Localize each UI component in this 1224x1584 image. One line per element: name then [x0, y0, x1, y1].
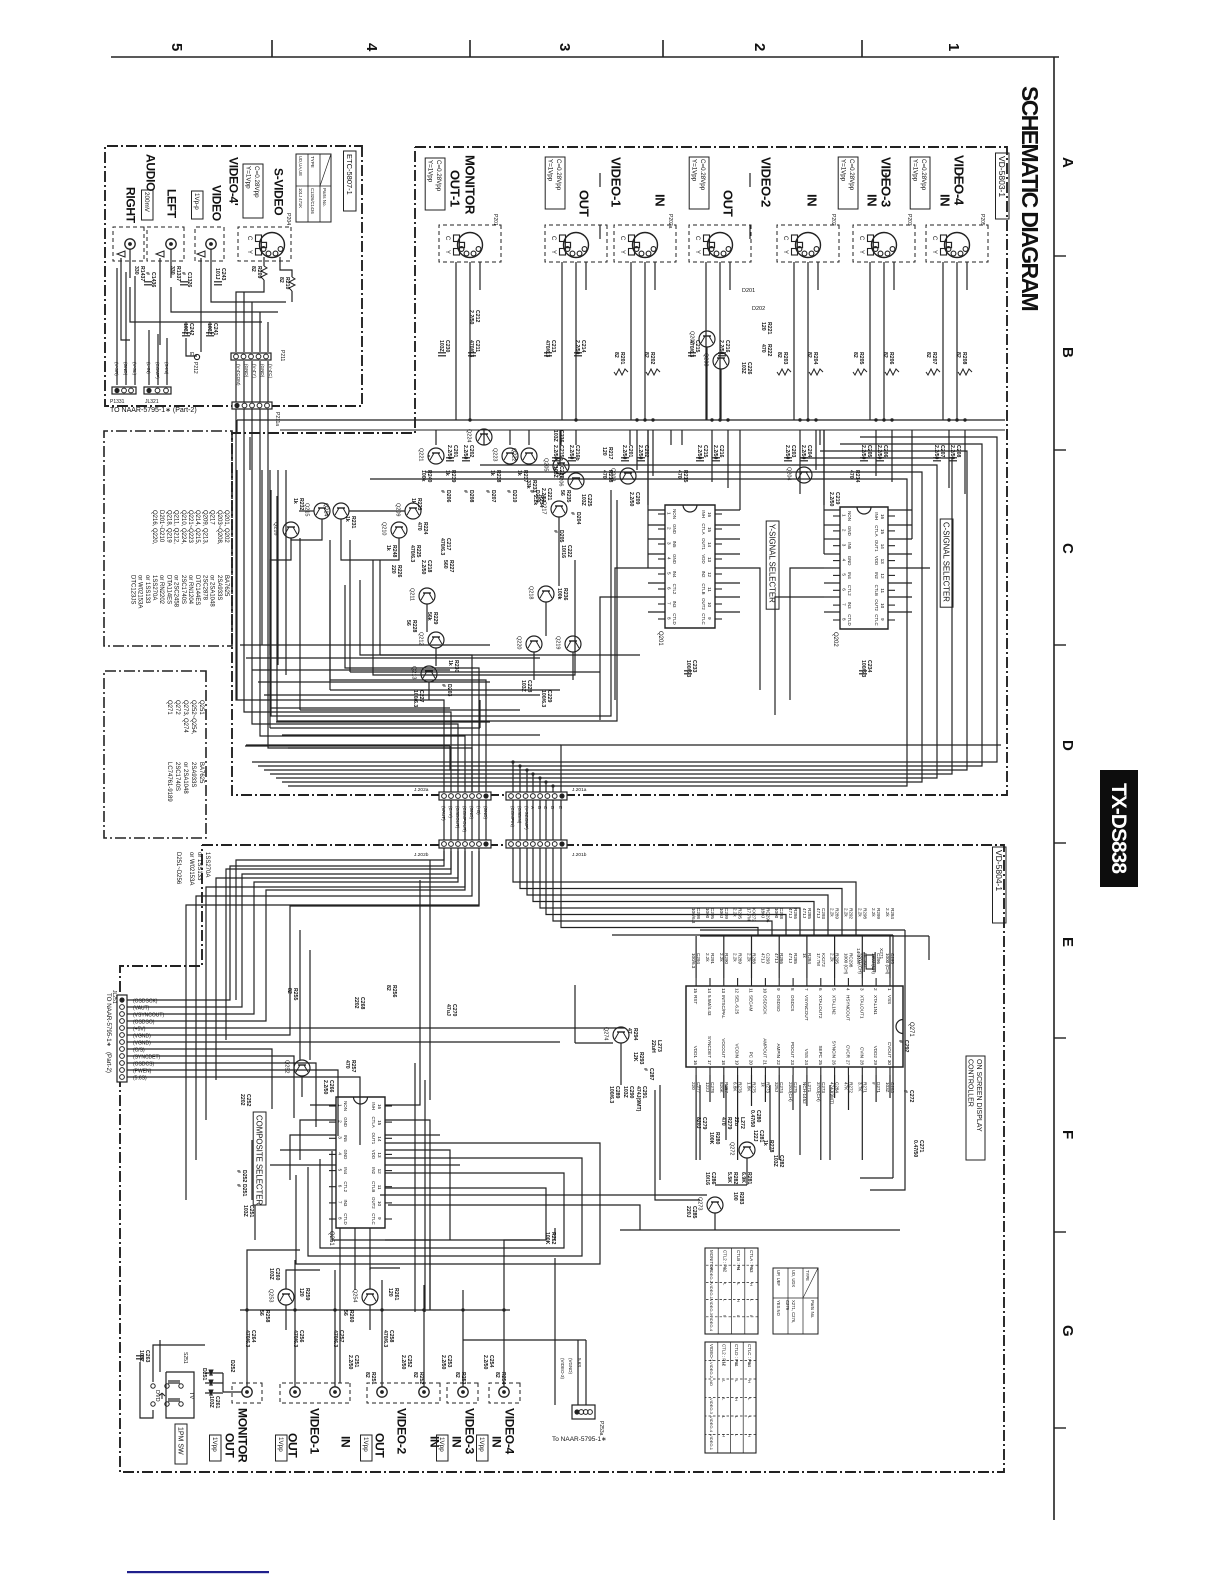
svg-text:103Z: 103Z	[885, 1082, 890, 1093]
switch contact bar	[168, 1398, 180, 1400]
wire	[259, 312, 261, 352]
wire JL251 pin lead	[127, 1034, 182, 1036]
svg-text:4: 4	[338, 1152, 343, 1155]
bus wire mesh	[240, 644, 490, 646]
svg-text:VIDEO-4: VIDEO-4	[709, 1416, 714, 1433]
svg-text:INTSC/PAL: INTSC/PAL	[721, 995, 726, 1019]
connector strip J201a	[506, 792, 567, 800]
svg-text:8: 8	[338, 1217, 343, 1220]
svg-text:DTA114ES: DTA114ES	[165, 575, 171, 604]
wire	[270, 1164, 336, 1166]
svg-text:OUT2: OUT2	[874, 599, 879, 611]
transistor Q273	[697, 1197, 724, 1213]
wire	[504, 1240, 540, 1310]
svg-text:100/6.3: 100/6.3	[691, 953, 696, 969]
svg-text:C=0.28Vpp: C=0.28Vpp	[848, 159, 855, 191]
RCA jack bottom row	[377, 1387, 387, 1397]
svg-text:3: 3	[859, 988, 864, 991]
wire strip-to-strip	[526, 800, 528, 840]
svg-text:1: 1	[887, 988, 892, 991]
svg-text:or 1SS133: or 1SS133	[196, 852, 202, 881]
svg-text:CTL2: CTL2	[672, 584, 677, 595]
resistor R202 zigzag	[646, 369, 660, 375]
svg-text:UD, UDX: UD, UDX	[791, 1270, 796, 1287]
RCA jack video	[206, 239, 216, 249]
svg-text:Y=1Vpp: Y=1Vpp	[912, 159, 919, 182]
bus wire OSD	[612, 934, 893, 936]
wire JL251 to composite area	[182, 1063, 316, 1127]
svg-text:12: 12	[377, 1169, 382, 1175]
bus wire	[300, 709, 520, 711]
svg-text:14: 14	[707, 988, 712, 994]
label dash	[958, 173, 960, 187]
svg-text:C: C	[694, 236, 700, 241]
junction	[511, 760, 514, 763]
svg-text:7: 7	[667, 602, 672, 605]
svg-text:X271: X271	[878, 948, 884, 960]
parts-list box 2	[104, 671, 206, 838]
transistor Q224	[466, 429, 493, 445]
svg-text:470: 470	[676, 470, 682, 479]
junction	[538, 776, 541, 779]
wire	[572, 652, 574, 680]
value box	[243, 164, 263, 218]
svg-text:Q254: Q254	[352, 1289, 358, 1302]
svg-text:(V-4'COM): (V-4'COM)	[236, 364, 241, 386]
wire	[823, 430, 825, 554]
wire channel to selector	[815, 430, 817, 470]
svg-text:GND: GND	[672, 524, 677, 534]
svg-text:D201: D201	[742, 288, 755, 294]
svg-text:NON: NON	[672, 509, 677, 519]
wire J201b to OSD	[561, 848, 758, 936]
svg-text:2.2/50: 2.2/50	[482, 1355, 488, 1370]
svg-text:Q271: Q271	[166, 700, 172, 715]
svg-text:820K: 820K	[719, 1082, 724, 1094]
wire Q271 pin drop	[778, 1075, 780, 1160]
svg-text:Q202: Q202	[832, 632, 838, 647]
wire J202b fan left	[196, 851, 472, 1160]
svg-text:2.2k: 2.2k	[830, 908, 835, 917]
wire to Q271 pin	[695, 936, 697, 978]
wire	[699, 1085, 701, 1160]
svg-text:1SS270A: 1SS270A	[204, 852, 210, 877]
wire	[647, 430, 649, 568]
border tick	[1054, 1427, 1066, 1429]
svg-text:12K: 12K	[632, 1052, 638, 1062]
wire JL251 pin lead	[127, 1013, 182, 1015]
wire strip-to-strip	[539, 800, 541, 840]
svg-text:IN: IN	[937, 194, 952, 206]
value box 200mV	[142, 190, 154, 220]
svg-text:J.201a: J.201a	[572, 787, 587, 793]
capacitor C206 symbol	[876, 458, 884, 461]
svg-text:2.2/50: 2.2/50	[440, 1355, 446, 1370]
svg-text:C=0.28Vpp: C=0.28Vpp	[920, 159, 927, 191]
svg-text:Q252~Q254,: Q252~Q254,	[190, 700, 196, 735]
S-video DIN connector P202a	[619, 233, 658, 258]
svg-text:(VGND): (VGND)	[568, 1358, 573, 1374]
svg-text:IN2: IN2	[371, 1167, 376, 1174]
capacitor C213 symbol	[544, 353, 552, 356]
svg-text:Q201, Q202: Q201, Q202	[223, 510, 229, 543]
svg-text:(COMPOUT): (COMPOUT)	[462, 806, 467, 832]
svg-text:GND: GND	[847, 556, 852, 566]
wire JL251 to J202b	[182, 848, 451, 1007]
wire Q201 right pin	[715, 596, 740, 598]
svg-text:Q273, Q274: Q273, Q274	[182, 700, 188, 733]
transistor Q252	[284, 1060, 311, 1076]
svg-text:14: 14	[707, 542, 712, 548]
wire	[575, 1042, 613, 1044]
connector DIN at top row	[689, 225, 751, 262]
wire Q201 left pin	[648, 524, 665, 526]
svg-text:9: 9	[707, 617, 712, 620]
capacitor C230 symbol	[438, 353, 446, 356]
svg-text:#: #	[462, 490, 468, 493]
svg-text:#: #	[439, 490, 445, 493]
wire Q251 wrap loop	[308, 1158, 582, 1256]
svg-text:AMPOUT: AMPOUT	[762, 1038, 767, 1058]
svg-text:IN4: IN4	[343, 1167, 348, 1174]
svg-text:(Y-SCOMP): (Y-SCOMP)	[524, 806, 529, 830]
junction	[380, 1308, 383, 1311]
wire Q271 pin drop	[695, 1075, 697, 1160]
bus loop OSD right	[870, 930, 905, 1190]
wire Q271 pin stub	[806, 1075, 808, 1106]
wire DIN stub	[729, 262, 731, 290]
svg-text:1k: 1k	[410, 498, 416, 504]
svg-text:180J: 180J	[760, 908, 765, 918]
wire ETC to J202a	[244, 409, 451, 792]
svg-text:#: #	[484, 490, 490, 493]
wire to RCA	[503, 1310, 505, 1387]
bus loop wire via J201a	[288, 479, 907, 786]
svg-text:14: 14	[880, 544, 885, 550]
wire Q201 right pin	[715, 567, 740, 569]
capacitor C263 symbol	[136, 1356, 144, 1359]
svg-text:82: 82	[882, 352, 888, 358]
svg-text:471J: 471J	[816, 908, 821, 918]
value label	[689, 157, 709, 209]
wire Q254 emitter	[369, 1305, 371, 1330]
svg-text:16: 16	[377, 1104, 382, 1110]
svg-text:470: 470	[416, 522, 422, 531]
wire transistor to bus	[681, 430, 683, 445]
connector P202 at top row	[777, 225, 839, 262]
svg-text:CTLA: CTLA	[371, 1116, 376, 1127]
svg-text:CVIN: CVIN	[859, 1047, 864, 1058]
transistor Q220	[516, 636, 543, 652]
svg-text:82: 82	[852, 352, 858, 358]
wire Q201 left pin	[648, 553, 665, 555]
svg-text:S-VIDEO: S-VIDEO	[272, 168, 286, 215]
svg-text:HSYNCOUT: HSYNCOUT	[845, 995, 850, 1021]
switch box	[166, 1372, 194, 1418]
connector strip P253a	[572, 1405, 595, 1419]
svg-text:120: 120	[601, 447, 607, 456]
svg-text:#: #	[569, 512, 575, 515]
board outline VD-5803-1	[232, 147, 1007, 795]
svg-text:GND: GND	[672, 554, 677, 564]
svg-text:(VGND): (VGND)	[133, 1041, 151, 1047]
wire	[299, 510, 314, 512]
wire strip-to-strip	[545, 800, 547, 840]
svg-text:J.202a: J.202a	[414, 787, 429, 793]
svg-text:82: 82	[454, 1372, 460, 1378]
wire	[130, 287, 262, 322]
svg-text:C=0.28Vpp: C=0.28Vpp	[555, 159, 562, 191]
svg-text:Y-SIGNAL SELECTER: Y-SIGNAL SELECTER	[768, 524, 777, 603]
svg-text:19: 19	[735, 1060, 740, 1066]
svg-text:VIDEO-4': VIDEO-4'	[227, 157, 241, 206]
svg-text:RIGHT: RIGHT	[124, 187, 138, 224]
svg-text:Q272: Q272	[174, 700, 180, 715]
svg-text:MONITOR: MONITOR	[462, 155, 477, 215]
wire	[209, 322, 211, 330]
wire Q202 left pin	[824, 538, 840, 540]
wire	[860, 1177, 893, 1179]
wire DIN P202a to bus	[644, 262, 646, 420]
wire J202b fan left	[186, 851, 479, 1200]
junction	[643, 418, 646, 421]
svg-text:or RN1204: or RN1204	[187, 575, 193, 605]
svg-text:15: 15	[707, 527, 712, 533]
svg-text:COMPOSITE SELECTER: COMPOSITE SELECTER	[255, 1115, 264, 1205]
wire	[428, 682, 430, 700]
wire J202a staircase	[345, 585, 479, 792]
svg-text:330: 330	[133, 266, 139, 275]
svg-text:(GND): (GND)	[483, 806, 488, 819]
svg-text:(V-SL): (V-SL)	[132, 362, 137, 375]
svg-text:P212: P212	[192, 362, 198, 374]
transistor Q205	[543, 458, 570, 474]
svg-text:470/6.3: 470/6.3	[439, 538, 445, 555]
wire to monitor RCA	[223, 1391, 242, 1393]
resistor R206 zigzag	[885, 369, 899, 375]
junction	[574, 418, 577, 421]
svg-text:3: 3	[667, 542, 672, 545]
svg-text:2: 2	[667, 527, 672, 530]
svg-text:4: 4	[363, 43, 380, 52]
wire	[349, 510, 405, 512]
wire ETC to J202a	[236, 409, 444, 792]
bus wire mesh	[270, 707, 450, 709]
wire	[236, 420, 238, 433]
wire	[385, 1134, 440, 1136]
svg-text:13: 13	[880, 559, 885, 565]
wire Q202 right pin	[888, 611, 912, 613]
capacitor C202 symbol	[637, 458, 645, 461]
wire Q271 pin drop	[737, 1075, 739, 1160]
wire J202b fan left	[226, 851, 451, 1040]
svg-text:10: 10	[707, 602, 712, 608]
svg-text:Q218: Q218	[528, 586, 534, 599]
svg-text:AMPIN: AMPIN	[776, 1043, 781, 1058]
svg-text:Q223: Q223	[492, 448, 498, 461]
svg-text:INH: INH	[874, 512, 879, 520]
wire	[263, 257, 265, 266]
svg-text:5.6S: 5.6S	[577, 1358, 582, 1367]
wire to Q271 pin	[723, 936, 725, 978]
svg-text:1: 1	[945, 43, 962, 51]
svg-text:26: 26	[832, 1060, 837, 1066]
svg-text:SCHEMATIC DIAGRAM: SCHEMATIC DIAGRAM	[1017, 86, 1043, 311]
svg-text:OUT: OUT	[720, 190, 735, 217]
junction	[333, 1308, 336, 1311]
wire	[339, 1228, 341, 1310]
svg-text:A: A	[530, 806, 535, 809]
wire channel to selector	[711, 430, 713, 482]
wire DIN stub	[654, 262, 656, 290]
wire Q252 to Q251	[301, 1076, 303, 1097]
capacitor C216 symbol	[718, 353, 726, 356]
svg-text:14: 14	[377, 1136, 382, 1142]
svg-text:470: 470	[720, 1117, 726, 1126]
wire Q274	[620, 1043, 622, 1085]
svg-text:6.8K: 6.8K	[733, 1082, 738, 1092]
svg-text:Y=1Vpp: Y=1Vpp	[427, 160, 434, 183]
wire	[715, 1184, 747, 1186]
bus wire mesh	[276, 721, 490, 723]
svg-text:OUT-1: OUT-1	[447, 170, 462, 207]
svg-text:NON: NON	[847, 511, 852, 521]
svg-text:NO: NO	[709, 1380, 714, 1386]
svg-text:(L-IN): (L-IN)	[146, 362, 151, 374]
capacitor C241 symbol	[206, 333, 214, 336]
svg-text:5: 5	[168, 43, 185, 51]
svg-text:H: H	[722, 1362, 727, 1365]
svg-text:Parts No.: Parts No.	[810, 1300, 815, 1318]
truth table 2 (composite selector control)	[705, 1342, 756, 1453]
wire channel to selector	[727, 430, 729, 488]
svg-text:VIDEO-1: VIDEO-1	[709, 1283, 714, 1300]
S-video DIN connector	[694, 233, 733, 258]
wire Q271 pin drop	[861, 1075, 863, 1160]
svg-text:2.2k: 2.2k	[747, 953, 752, 962]
wire channel to selector	[799, 430, 801, 494]
svg-text:JL321: JL321	[145, 399, 159, 405]
svg-text:Y: Y	[931, 250, 937, 254]
svg-text:(S-IN): (S-IN)	[164, 362, 169, 375]
svg-text:CTLD: CTLD	[343, 1213, 348, 1224]
svg-text:2.2/50: 2.2/50	[628, 492, 634, 507]
svg-text:OSDSO: OSDSO	[776, 995, 781, 1012]
svg-text:220J(CH): 220J(CH)	[788, 1082, 793, 1102]
wire	[251, 361, 253, 402]
wire to RCA	[462, 1310, 464, 1387]
resistor R210 zigzag	[289, 277, 295, 291]
svg-text:1k: 1k	[385, 545, 391, 551]
svg-text:OSDSCK: OSDSCK	[762, 995, 767, 1015]
wire Q201 left pin	[648, 509, 665, 511]
wire	[280, 257, 292, 277]
bus wire bottom rail	[620, 1229, 900, 1231]
svg-text:(COMP): (COMP)	[155, 362, 160, 379]
wire J201b to OSD	[527, 848, 828, 936]
svg-text:D251: D251	[201, 1368, 207, 1381]
wire to Q271 pin	[806, 936, 808, 978]
svg-text:IN4: IN4	[672, 571, 677, 578]
svg-text:C=0.28Vpp: C=0.28Vpp	[253, 166, 260, 198]
wire channel to selector	[964, 430, 966, 494]
svg-text:1Vpp: 1Vpp	[277, 1437, 284, 1452]
svg-text:(OSDCS): (OSDCS)	[133, 1062, 154, 1068]
bus wire lower	[388, 1205, 640, 1230]
wire to Q271 pin	[834, 936, 836, 978]
wire transistor to bus	[575, 430, 577, 445]
svg-text:or 1SS133: or 1SS133	[144, 575, 150, 604]
wire Q271 pin stub	[723, 1075, 725, 1098]
capacitor C215 symbol	[696, 458, 704, 461]
svg-text:7: 7	[842, 603, 847, 606]
wire JL251 pin lead	[127, 999, 182, 1001]
wire J201b to OSD	[533, 848, 814, 936]
svg-text:SYNCIN: SYNCIN	[832, 1041, 837, 1058]
svg-text:IN2: IN2	[874, 572, 879, 579]
svg-text:OUT: OUT	[576, 190, 591, 217]
svg-text:C: C	[246, 236, 252, 241]
svg-text:P211: P211	[279, 350, 285, 362]
wire Q201 right pin	[715, 538, 740, 540]
transistor Q211	[409, 588, 436, 604]
wire	[171, 287, 278, 312]
svg-text:IN: IN	[490, 1436, 504, 1447]
wire Q201 right pin	[715, 524, 740, 526]
wire	[349, 540, 351, 672]
wire	[559, 430, 561, 466]
connector strip J202b	[439, 840, 491, 848]
wire channel to selector	[652, 430, 654, 476]
svg-text:LC74761-9189: LC74761-9189	[166, 762, 172, 802]
RCA jack audio R	[125, 239, 135, 249]
svg-text:OUT: OUT	[223, 1433, 237, 1458]
svg-text:82: 82	[776, 352, 782, 358]
svg-text:12: 12	[735, 988, 740, 994]
transistor Q274	[603, 1027, 630, 1043]
svg-text:103Z: 103Z	[438, 340, 444, 353]
wire DIN stub	[893, 262, 895, 290]
wire Q251 wrap loop	[296, 1143, 600, 1264]
svg-text:VOCOUT: VOCOUT	[721, 1038, 726, 1058]
board label VD-5803-1	[996, 153, 1010, 219]
wire	[370, 1268, 400, 1289]
wire	[211, 262, 286, 302]
svg-text:Y: Y	[444, 250, 450, 254]
svg-text:24: 24	[804, 1060, 809, 1066]
wire Q271 pin stub	[764, 1075, 766, 1102]
svg-text:(C/S): (C/S)	[133, 1048, 145, 1054]
bus wire OSD top	[700, 929, 905, 931]
capacitor C216 symbol	[712, 458, 720, 461]
svg-text:82: 82	[494, 1372, 500, 1378]
label dash	[885, 173, 887, 187]
transistor Q272	[729, 1142, 756, 1158]
S-video DIN connector P201	[444, 233, 483, 258]
wire	[270, 538, 291, 728]
svg-text:VDD: VDD	[874, 556, 879, 565]
wire	[911, 430, 913, 539]
wire JL251 to composite area	[182, 1077, 360, 1145]
wire Q272	[746, 1158, 748, 1185]
value label	[838, 157, 858, 209]
svg-text:13: 13	[707, 557, 712, 563]
svg-text:11: 11	[707, 587, 712, 592]
svg-text:7: 7	[338, 1201, 343, 1204]
svg-text:D251~D256: D251~D256	[175, 852, 181, 885]
svg-text:P203: P203	[906, 214, 912, 226]
wire	[170, 249, 172, 278]
